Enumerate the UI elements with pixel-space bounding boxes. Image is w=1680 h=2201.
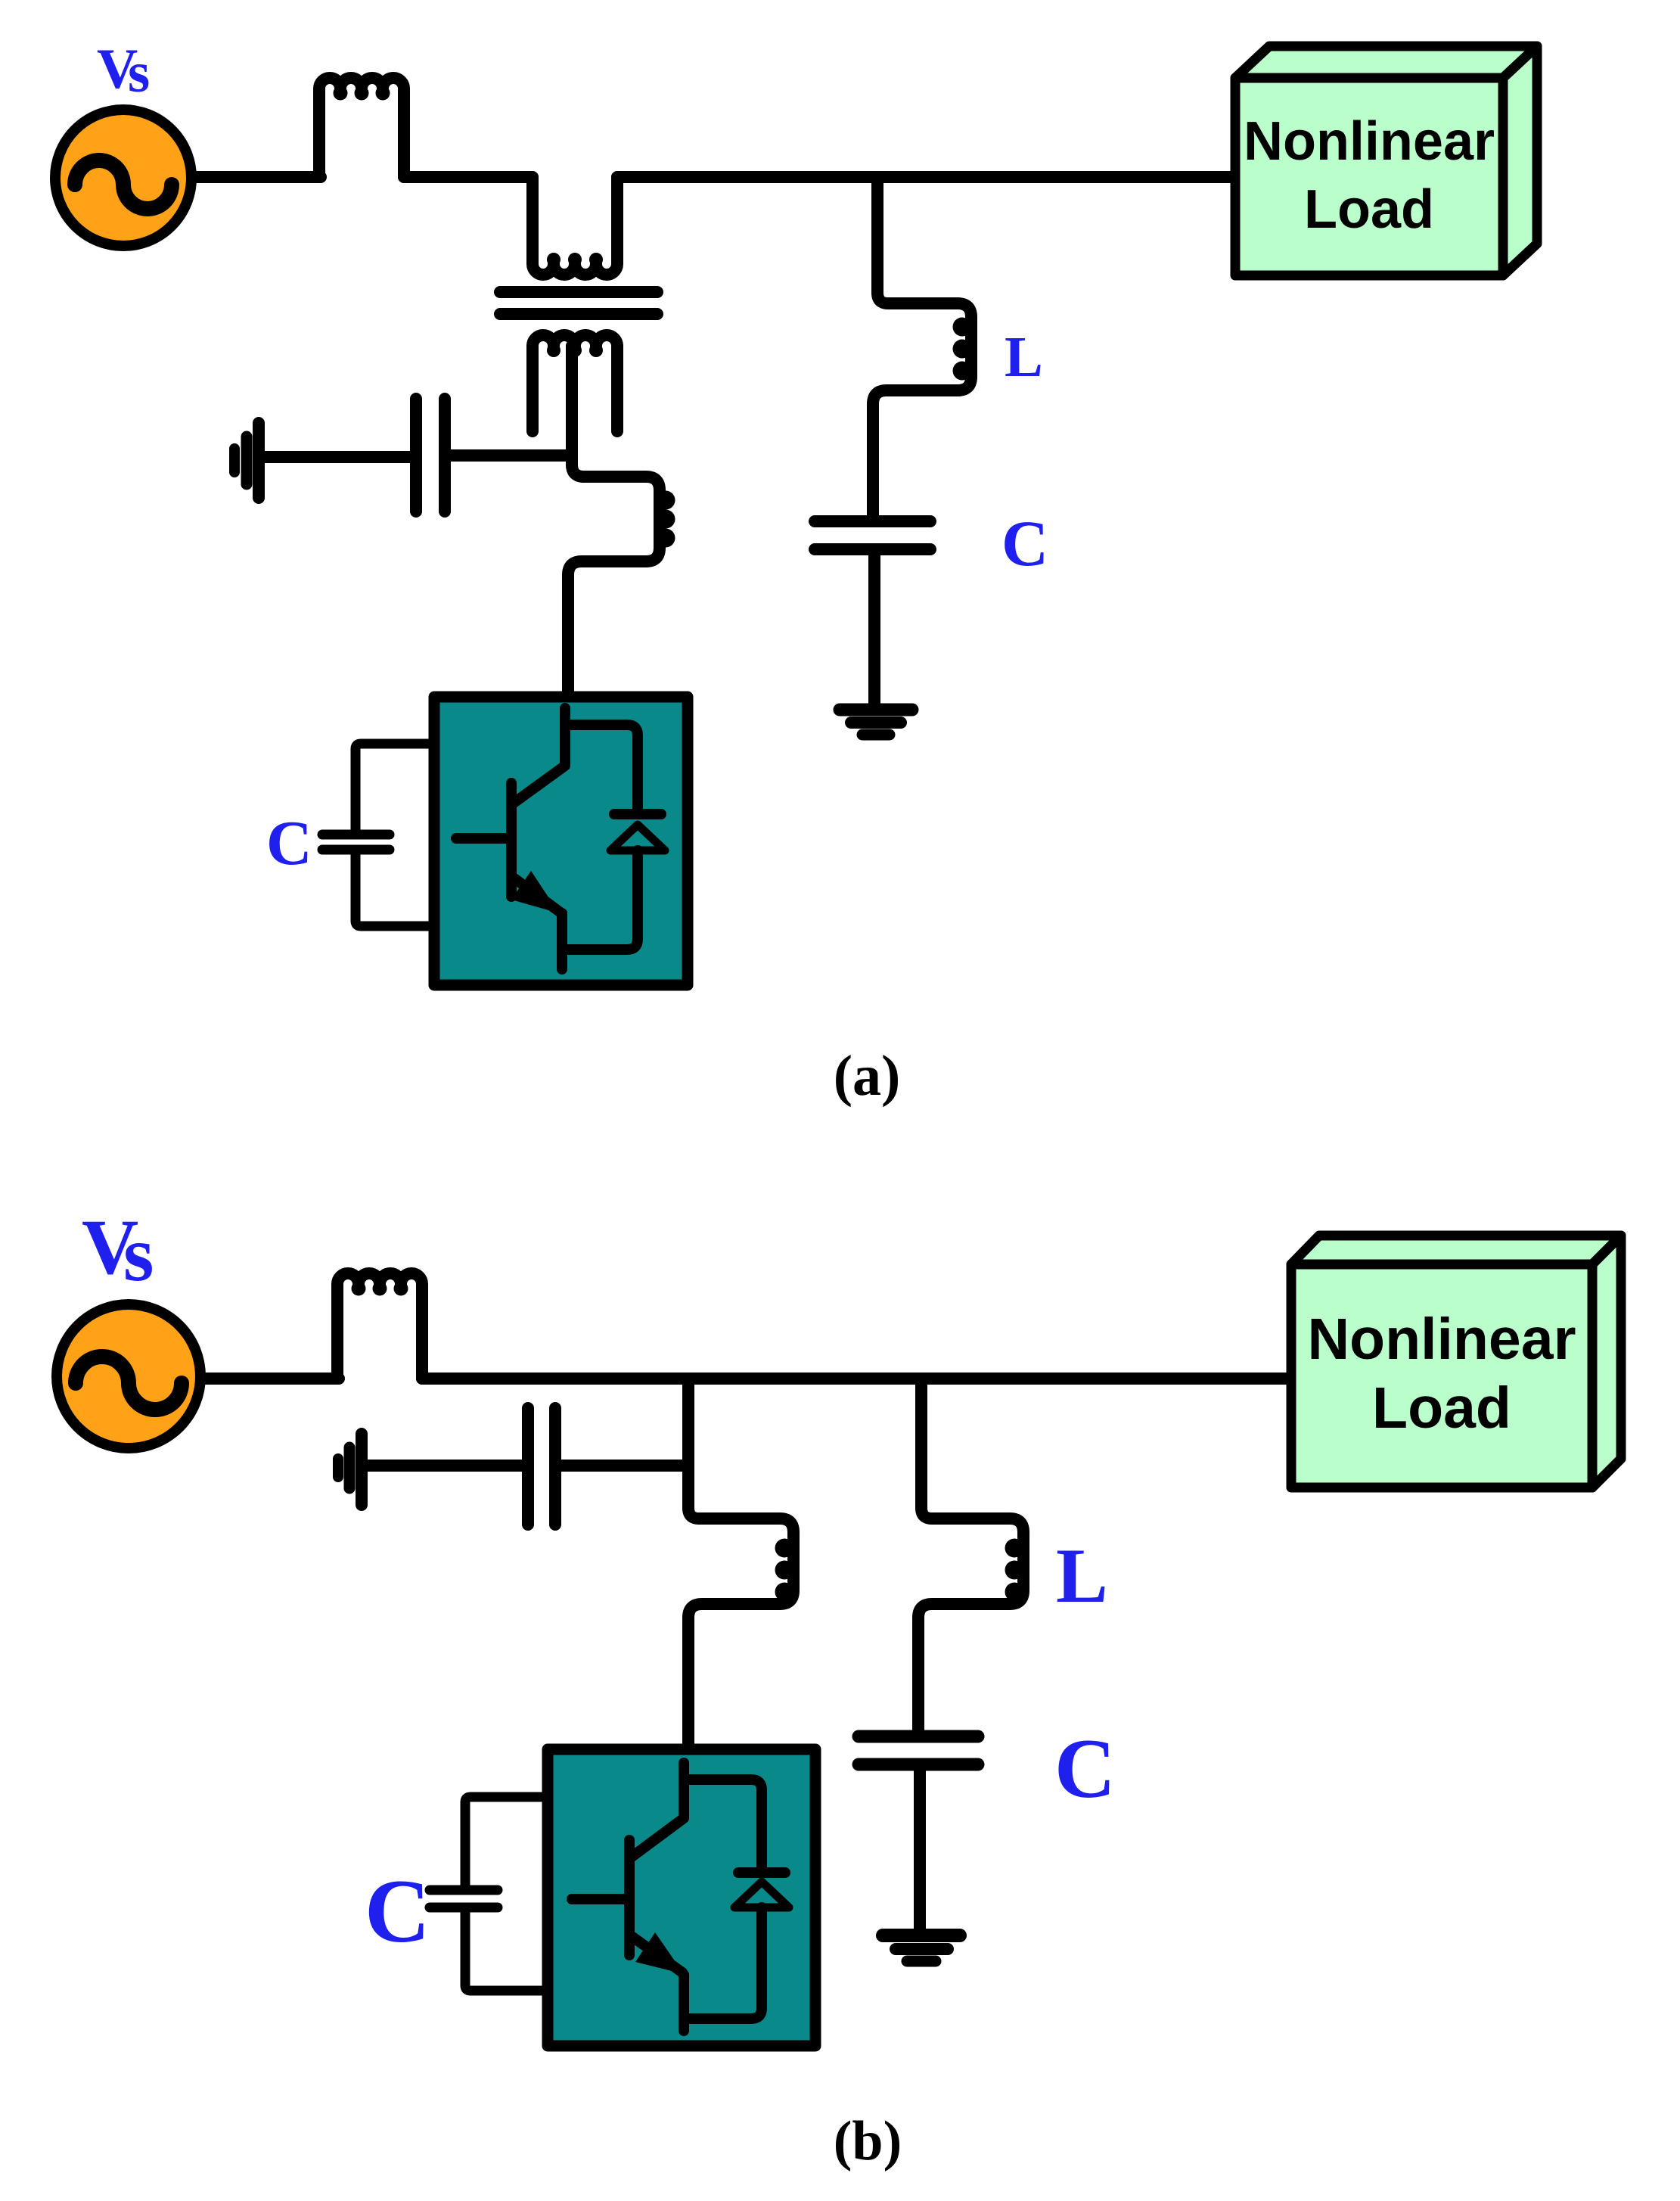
ground G4 (b)	[883, 1935, 960, 1961]
svg-text:Nonlinear: Nonlinear	[1244, 111, 1495, 172]
label C (a branch)	[1001, 507, 1048, 580]
svg-text:Nonlinear: Nonlinear	[1307, 1307, 1576, 1372]
svg-text:s: s	[123, 1211, 154, 1298]
svg-text:C: C	[1054, 1722, 1116, 1816]
freewheeling diode D1 (a)	[565, 725, 665, 950]
wire C1 to secondary tap (a)	[449, 449, 572, 462]
nonlinear load text (a)	[1244, 111, 1495, 240]
capacitor C2 plates (a)	[322, 835, 390, 850]
caption (b)	[834, 2110, 902, 2172]
nonlinear load box (b)	[1291, 1236, 1621, 1488]
inductor Ls (b)	[337, 1273, 422, 1379]
IGBT Q2 emitter arrow (b)	[635, 1932, 684, 1974]
label C (a inverter)	[266, 808, 312, 878]
capacitor C1 (a)	[416, 399, 445, 511]
ground G3 (b)	[338, 1434, 362, 1505]
label Vs (b)	[82, 1204, 154, 1298]
nonlinear load text (b)	[1307, 1307, 1576, 1441]
wire ground to C1 (a)	[263, 451, 411, 463]
AC source Vs (a)	[55, 110, 191, 246]
svg-text:L: L	[1056, 1533, 1108, 1619]
svg-text:C: C	[266, 808, 312, 878]
caption (a)	[834, 1044, 901, 1108]
wire C5 to ground (b)	[914, 1764, 926, 1929]
wire Ls to transformer primary (a)	[404, 171, 533, 183]
L branch drop with coil (b)	[918, 1379, 1024, 1730]
drop with coil to inverter (b)	[688, 1379, 794, 1744]
capacitor C3 (a)	[815, 521, 930, 549]
capacitor C4 (b)	[528, 1408, 555, 1525]
capacitor C6 wires (b)	[465, 1797, 542, 1991]
inductor Ls (a)	[319, 78, 404, 177]
label L (a)	[1005, 325, 1043, 389]
svg-text:C: C	[1001, 507, 1048, 580]
wire ground to C4 (b)	[366, 1460, 522, 1472]
svg-text:C: C	[365, 1861, 430, 1961]
wire source to Ls (a)	[193, 171, 321, 183]
wire source to Ls (b)	[202, 1373, 339, 1385]
inverter box (b)	[548, 1749, 815, 2046]
svg-text:Load: Load	[1372, 1376, 1511, 1441]
bus wire (b)	[422, 1373, 1288, 1385]
freewheeling diode D2 (b)	[684, 1780, 789, 2019]
label C (b branch)	[1054, 1722, 1116, 1816]
wire C3 to ground (a)	[868, 549, 880, 703]
AC source Vs (b)	[57, 1304, 200, 1448]
capacitor C5 (b)	[859, 1736, 978, 1764]
svg-text:Load: Load	[1304, 179, 1434, 240]
svg-text:(b): (b)	[834, 2110, 902, 2172]
label C (b inverter)	[365, 1861, 430, 1961]
IGBT Q1 emitter arrow (a)	[511, 871, 559, 913]
capacitor C6 plates (b)	[430, 1890, 498, 1907]
capacitor C2 wires (a)	[356, 744, 428, 926]
nonlinear load box (a)	[1235, 46, 1537, 275]
transformer T primary (a)	[533, 177, 617, 275]
IGBT Q2 (b)	[572, 1763, 684, 2031]
tap wire with coil to inverter (a)	[568, 346, 675, 692]
inverter box (a)	[434, 697, 688, 985]
ground G2 (a)	[840, 710, 912, 735]
ground G1 (a)	[234, 423, 259, 498]
transformer T secondary (a)	[533, 335, 617, 431]
IGBT Q1 (a)	[456, 708, 565, 969]
bus wire transformer to load (a)	[617, 171, 1233, 183]
svg-text:s: s	[128, 42, 150, 104]
transformer T core (a)	[500, 292, 657, 314]
wire C4 to drop (b)	[561, 1460, 688, 1472]
L branch drop with coil (a)	[873, 177, 972, 518]
svg-text:(a): (a)	[834, 1044, 901, 1108]
svg-text:L: L	[1005, 325, 1043, 389]
label Vs (a)	[97, 38, 150, 104]
label L (b)	[1056, 1533, 1108, 1619]
